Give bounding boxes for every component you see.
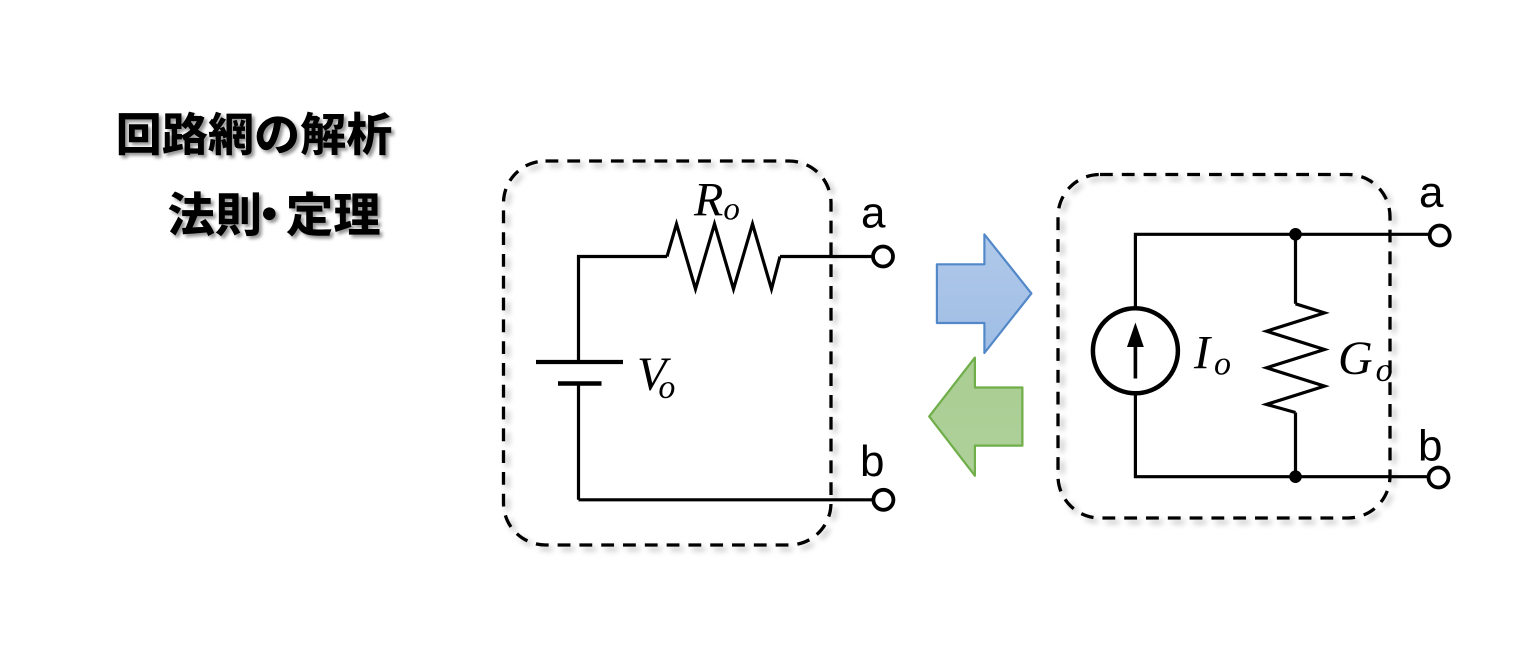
Norton source dashed boundary box bbox=[1058, 175, 1390, 519]
wire: resistor Ro to terminal a bbox=[780, 255, 872, 258]
wire: battery positive up to resistor Ro bbox=[579, 257, 668, 363]
wire: current source bottom to b rail bbox=[1135, 395, 1427, 477]
battery Vo positive plate bbox=[536, 360, 623, 364]
Thevenin source dashed boundary box bbox=[504, 161, 832, 545]
current source Io circle bbox=[1093, 308, 1178, 393]
svg-text:Ro: Ro bbox=[693, 174, 740, 228]
node b (Thevenin) terminal circle bbox=[873, 490, 893, 510]
green arrow (Norton to Thevenin) bbox=[929, 358, 1022, 476]
conductance Go zigzag bbox=[1267, 304, 1325, 413]
svg-text:a: a bbox=[861, 189, 886, 238]
wire: Go branch bottom bbox=[1294, 413, 1297, 477]
node a (Norton) terminal circle bbox=[1430, 226, 1450, 246]
wire: battery negative down bbox=[577, 384, 580, 500]
wire: current source top to node a bbox=[1135, 234, 1428, 307]
wire: Thevenin bottom to terminal b bbox=[579, 498, 873, 501]
title line 1: 回路網の解析 bbox=[119, 112, 391, 156]
svg-text:b: b bbox=[1418, 422, 1442, 471]
junction dot: bottom node of Go bbox=[1289, 470, 1302, 483]
current source Io arrow shaft bbox=[1134, 344, 1138, 379]
blue arrow (Thevenin to Norton) bbox=[937, 234, 1032, 353]
node a (Thevenin) terminal circle bbox=[873, 247, 893, 267]
resistor Ro bbox=[667, 224, 780, 289]
svg-text:Vo: Vo bbox=[637, 348, 675, 406]
wire: Go branch top bbox=[1294, 234, 1297, 303]
battery Vo negative plate bbox=[558, 381, 602, 386]
svg-text:Go: Go bbox=[1338, 332, 1393, 389]
svg-text:b: b bbox=[860, 437, 884, 486]
junction dot: top node of Go bbox=[1289, 228, 1302, 241]
node b (Norton) terminal circle bbox=[1429, 468, 1449, 488]
title line 2: 法則・定理 bbox=[169, 191, 380, 236]
svg-text:a: a bbox=[1419, 168, 1444, 217]
svg-text:Io: Io bbox=[1193, 327, 1231, 383]
current source Io arrow head bbox=[1127, 323, 1144, 348]
